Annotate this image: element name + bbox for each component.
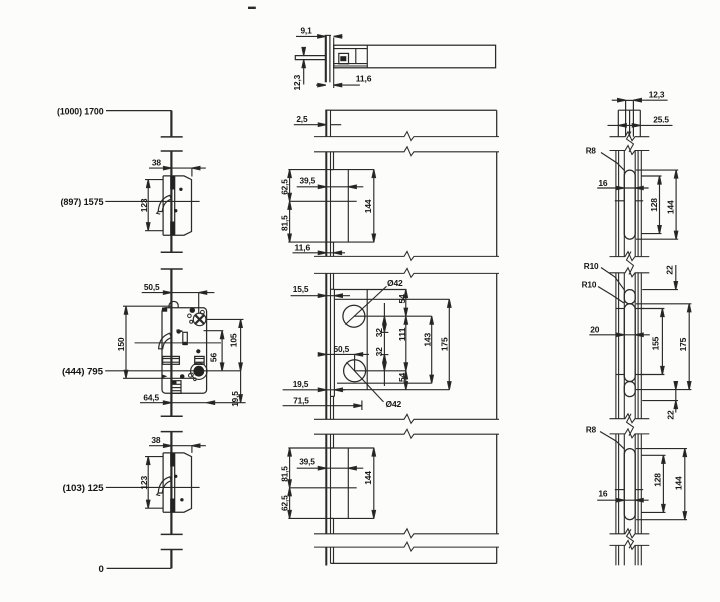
svg-text:R8: R8	[586, 424, 596, 434]
side ticks	[616, 308, 625, 310]
svg-text:Ø42: Ø42	[386, 399, 402, 409]
latch axis line	[135, 342, 221, 344]
svg-text:32: 32	[374, 328, 384, 337]
bent tabs	[170, 176, 175, 190]
recess edge line	[333, 273, 335, 289]
break lines with jags	[314, 132, 499, 551]
svg-text:175: 175	[678, 337, 688, 351]
ext lines	[288, 169, 374, 171]
central lock case	[116, 282, 245, 407]
upper slot in profile	[586, 145, 679, 239]
side ticks	[615, 489, 625, 491]
capsule small top	[624, 290, 635, 304]
slot edge line	[333, 152, 335, 170]
svg-text:71,5: 71,5	[293, 395, 309, 405]
right view : faceplate profile section	[582, 89, 692, 565]
svg-text:19,5: 19,5	[293, 379, 309, 389]
svg-text:62,5: 62,5	[280, 495, 290, 511]
svg-text:50,5: 50,5	[144, 282, 160, 292]
latch pocket	[158, 195, 171, 211]
svg-text:0: 0	[99, 564, 104, 575]
bent tabs	[170, 453, 175, 467]
tangent ext line	[366, 290, 368, 390]
central cutouts in profile	[582, 261, 692, 420]
svg-text:2,5: 2,5	[296, 114, 307, 124]
svg-text:50,5: 50,5	[334, 344, 350, 354]
svg-text:11,6: 11,6	[295, 242, 311, 252]
upper keep	[139, 158, 206, 236]
spindle stub	[295, 56, 325, 60]
top plug wide part	[618, 110, 640, 137]
svg-text:15,5: 15,5	[293, 284, 309, 294]
stop wedge	[162, 374, 168, 378]
slot end notches	[331, 169, 334, 171]
lower slot in profile	[586, 424, 687, 519]
svg-text:25.5: 25.5	[653, 115, 669, 125]
svg-text:150: 150	[116, 337, 126, 351]
break bands	[610, 132, 650, 550]
svg-text:16: 16	[598, 178, 607, 188]
svg-text:175: 175	[440, 337, 450, 351]
capsule slot	[624, 170, 635, 239]
hole1 center line	[354, 315, 432, 317]
svg-text:38: 38	[152, 158, 161, 168]
screw dots	[174, 475, 177, 478]
svg-text:81,5: 81,5	[280, 215, 290, 231]
ext lines top	[334, 289, 406, 291]
deadbolt front	[163, 356, 180, 364]
svg-text:(897) 1575: (897) 1575	[61, 197, 105, 208]
upper slot section	[280, 152, 376, 257]
follower hub	[191, 363, 207, 379]
body bottom edge	[331, 562, 497, 564]
svg-text:144: 144	[363, 471, 373, 485]
svg-text:(103) 125: (103) 125	[63, 483, 105, 494]
svg-text:105: 105	[229, 333, 239, 347]
faceplate thick edge	[325, 110, 327, 565]
svg-text:9,1: 9,1	[300, 25, 311, 35]
capsule slot	[624, 449, 635, 520]
cylinder screw	[193, 313, 206, 326]
follower hole	[344, 360, 366, 382]
svg-text:56: 56	[208, 353, 218, 362]
svg-text:22: 22	[665, 410, 675, 419]
top view detail	[248, 8, 496, 91]
middle view : faceplate front	[280, 110, 499, 565]
dim 32/32	[383, 303, 385, 386]
latch lever	[159, 333, 172, 349]
capsule small bottom	[624, 382, 635, 397]
svg-text:143: 143	[422, 333, 432, 347]
svg-text:155: 155	[651, 336, 661, 350]
svg-text:R8: R8	[586, 145, 596, 155]
dim 9,1	[296, 25, 343, 38]
bottom slide	[172, 381, 182, 394]
deadbolt tail	[195, 356, 204, 364]
left view : lock with keeps	[57, 107, 246, 576]
svg-text:32: 32	[374, 347, 384, 356]
svg-text:16: 16	[598, 488, 607, 498]
lock body top view	[334, 45, 496, 68]
latch pocket	[158, 477, 171, 493]
central recess section	[283, 273, 451, 419]
dim 2,5	[294, 114, 341, 126]
spring dot	[196, 349, 200, 353]
svg-text:19,5: 19,5	[230, 391, 240, 407]
ext lines	[288, 447, 374, 449]
svg-text:128: 128	[649, 198, 659, 212]
stray mark	[248, 7, 256, 9]
svg-text:144: 144	[666, 200, 676, 214]
hole center line	[347, 448, 349, 518]
svg-text:39,5: 39,5	[300, 176, 316, 186]
dim 12,3	[292, 47, 306, 90]
case outline	[162, 308, 207, 393]
keep outline	[163, 453, 191, 512]
svg-text:62,5: 62,5	[280, 179, 290, 195]
break ticks	[161, 137, 183, 550]
svg-text:20: 20	[590, 324, 599, 334]
slot edge line	[333, 434, 335, 448]
lower slot section	[280, 434, 376, 563]
capsule long	[624, 304, 635, 382]
svg-text:Ø42: Ø42	[387, 278, 403, 288]
body top edge	[331, 109, 497, 111]
svg-text:12,3: 12,3	[292, 75, 302, 91]
svg-text:R10: R10	[582, 280, 597, 290]
hub nut top view	[339, 53, 349, 63]
centerline rail	[170, 111, 172, 569]
lower keep	[139, 435, 206, 512]
dim 11,6	[316, 73, 372, 86]
top hook	[169, 301, 178, 307]
svg-text:144: 144	[674, 476, 684, 490]
profile rails	[616, 151, 641, 566]
hole2 center line	[355, 370, 406, 372]
svg-text:(1000) 1700: (1000) 1700	[57, 107, 104, 118]
svg-text:(444) 795: (444) 795	[62, 366, 104, 377]
svg-text:22: 22	[665, 265, 675, 274]
svg-text:38: 38	[151, 435, 160, 445]
side ticks	[615, 200, 625, 202]
faceplate thin edge	[330, 110, 332, 563]
hole center line	[347, 170, 349, 243]
top plug narrow bar	[625, 100, 627, 110]
svg-text:12,3: 12,3	[649, 89, 665, 99]
keep outline	[163, 176, 191, 235]
cylinder hole	[343, 305, 365, 327]
screw dots	[179, 188, 182, 191]
svg-text:64,5: 64,5	[143, 392, 159, 402]
link ellipse	[188, 372, 194, 378]
svg-text:144: 144	[363, 199, 373, 213]
svg-text:R10: R10	[584, 261, 599, 271]
guide dot	[180, 374, 185, 379]
svg-text:39,5: 39,5	[299, 457, 315, 467]
svg-text:11,6: 11,6	[356, 73, 372, 83]
body right edge	[496, 110, 498, 563]
faceplate edge-on strip	[325, 35, 327, 82]
svg-text:128: 128	[653, 473, 663, 487]
